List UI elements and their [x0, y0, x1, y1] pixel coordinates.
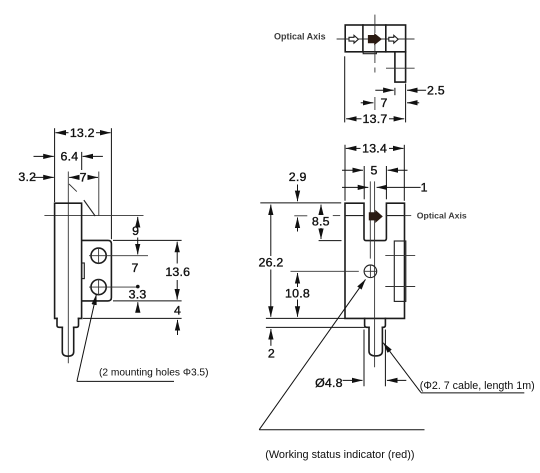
- dim 10.8: [297, 273, 299, 287]
- ext line mid (2.5 left): [394, 88, 396, 95]
- inner divider right: [385, 25, 387, 52]
- body outline (front view): [345, 203, 405, 318]
- svg-text:7: 7: [380, 96, 387, 110]
- inner divider left: [362, 25, 364, 52]
- indicator cross horizontal + left ext: [291, 270, 359, 272]
- ext 4.8 left: [363, 330, 365, 387]
- svg-text:(2 mounting holes Φ3.5): (2 mounting holes Φ3.5): [99, 367, 209, 378]
- hole 1 cross: [89, 255, 148, 257]
- dim 13.4: [346, 147, 361, 149]
- middle cell bottom dip: [363, 52, 376, 54]
- ext 13.4 right: [403, 145, 405, 201]
- dim 13.6: [176, 242, 178, 264]
- ext 5 right: [385, 166, 387, 199]
- centerline / 7 left ext: [67, 172, 69, 364]
- ext 4.8 right: [384, 330, 386, 387]
- body bottom ext: [266, 317, 345, 319]
- svg-text:2: 2: [268, 347, 275, 361]
- svg-text:1: 1: [421, 181, 428, 195]
- axis stub right: [405, 215, 411, 217]
- cable label underline: [421, 392, 524, 394]
- svg-text:9: 9: [132, 224, 139, 238]
- cable leader: [383, 343, 421, 393]
- ext line right (13.2): [110, 128, 112, 239]
- dim 2: [270, 329, 272, 346]
- indicator tab (side): [82, 263, 85, 279]
- cable (side view): [62, 327, 73, 356]
- lip line right tower: [386, 215, 404, 217]
- hole centerline 1 (crossing tab): [385, 255, 415, 257]
- svg-text:(Working status indicator (red: (Working status indicator (red)): [265, 449, 414, 461]
- svg-text:Ø4.8: Ø4.8: [315, 376, 343, 390]
- hole 2 line dot terminator: [136, 285, 140, 289]
- indicator cross vertical: [369, 265, 371, 278]
- indicator circle: [364, 265, 377, 278]
- axis stub left: [333, 215, 340, 217]
- body outline (side view): [55, 203, 82, 318]
- bottom stub (front view): [365, 318, 386, 327]
- mounting flange: [82, 240, 112, 301]
- aperture line A: [369, 181, 371, 258]
- ext 13.4 left: [344, 145, 346, 201]
- body bottom ext: [83, 317, 182, 319]
- stub bottom ext: [266, 326, 365, 328]
- optical axis line (side view): [44, 215, 143, 217]
- vertical centerline dashes: [374, 15, 376, 33]
- towers top ext line: [260, 202, 341, 204]
- dim 6.4: [34, 155, 54, 157]
- indicator leader: [259, 279, 365, 429]
- black optical arrow (middle cell): [368, 33, 382, 45]
- dim 2.5: [375, 89, 393, 91]
- svg-text:13.6: 13.6: [165, 265, 190, 279]
- svg-text:4: 4: [174, 303, 181, 317]
- ext 5 left: [363, 166, 365, 199]
- flange top ext: [113, 239, 182, 241]
- dim 13.7: [346, 118, 361, 120]
- svg-text:3.2: 3.2: [18, 170, 36, 184]
- hole centerline 2 (crossing tab): [385, 286, 415, 288]
- svg-text:26.2: 26.2: [259, 256, 284, 270]
- ext line left (13.7): [344, 56, 346, 122]
- mounting hole 1: [91, 248, 106, 263]
- emitter outline arrow (left cell): [349, 35, 358, 43]
- svg-text:Optical Axis: Optical Axis: [417, 210, 467, 220]
- svg-text:7: 7: [131, 261, 138, 275]
- ext line right (13.7 / 2.5): [405, 84, 407, 123]
- svg-text:(Φ2. 7 cable, length 1m): (Φ2. 7 cable, length 1m): [420, 380, 535, 392]
- lip line left tower: [345, 215, 364, 217]
- hole 2 cross: [89, 286, 137, 288]
- svg-text:3.3: 3.3: [129, 287, 147, 301]
- svg-text:13.7: 13.7: [363, 112, 388, 126]
- dim 26.2: [270, 205, 272, 256]
- aperture line B / centerline: [374, 181, 376, 367]
- svg-text:2.5: 2.5: [427, 84, 445, 98]
- optical axis line: [337, 38, 415, 40]
- axis line re-draw inside rect: [345, 38, 405, 40]
- dim 13.2: [55, 132, 68, 134]
- side tab (front view): [394, 241, 406, 301]
- chamfer line: [84, 201, 95, 216]
- dim 7 (top view): [361, 102, 374, 104]
- mounting holes leader: [77, 294, 97, 381]
- svg-text:10.8: 10.8: [285, 287, 310, 301]
- ext line left (13.2/6.4/3.2): [54, 128, 56, 202]
- dim 7 (slot): [69, 176, 79, 178]
- 7 right ext / slot edge: [98, 172, 100, 216]
- cable (front view): [369, 327, 382, 356]
- svg-text:6.4: 6.4: [60, 150, 78, 164]
- mounting hole 2: [91, 280, 106, 295]
- dim 8.5: [320, 205, 322, 215]
- dim 1: [342, 186, 368, 188]
- small diagonal tick: [69, 184, 77, 192]
- slot bottom ext: [319, 240, 342, 242]
- indicator label underline: [259, 429, 424, 431]
- black optical arrow (front): [369, 210, 383, 223]
- dim 5: [342, 169, 363, 171]
- dim 9: [137, 217, 139, 223]
- svg-text:13.2: 13.2: [70, 126, 95, 140]
- svg-text:8.5: 8.5: [312, 214, 330, 228]
- svg-text:13.4: 13.4: [362, 142, 387, 156]
- svg-text:7: 7: [80, 170, 87, 184]
- bottom stub (side view): [57, 318, 79, 327]
- mounting holes leader underline: [77, 380, 174, 382]
- ext line 6.4 right: [81, 152, 83, 170]
- svg-text:2.9: 2.9: [289, 170, 307, 184]
- svg-text:5: 5: [370, 164, 377, 178]
- flange bottom ext: [113, 300, 182, 302]
- svg-text:Optical Axis: Optical Axis: [274, 32, 326, 42]
- receiver outline arrow (right cell): [389, 35, 398, 43]
- cable tab (top view): [395, 52, 406, 82]
- body outline (top view rectangle): [345, 25, 405, 52]
- tab crossing centerline: [386, 67, 415, 69]
